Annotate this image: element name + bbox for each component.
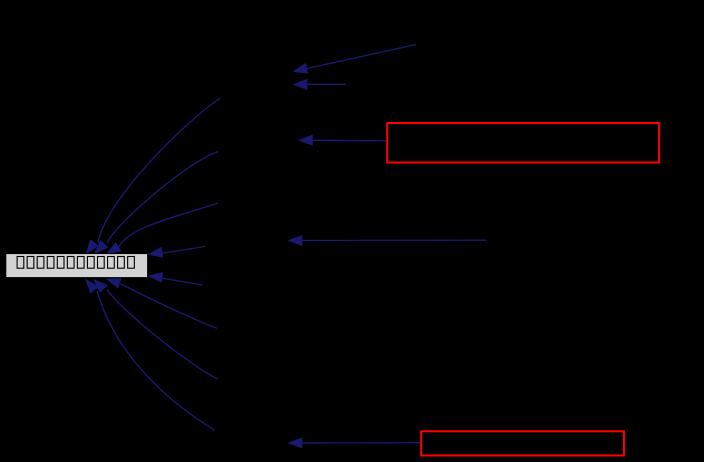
- edge L2 (caller curve bottom-2): [94, 279, 219, 379]
- edge F (from red node 2): [288, 438, 420, 448]
- node: highlighted caller (red box 2): [421, 431, 624, 455]
- edge B (indirect caller short): [293, 79, 346, 89]
- node: highlighted caller (red box 1): [387, 123, 659, 163]
- edge C (from red node 1): [299, 135, 387, 145]
- edge L1 (caller curve bottom-1): [106, 278, 217, 328]
- edge U3 (caller curve top-3): [106, 203, 218, 254]
- edge G1 (caller line right-1): [148, 247, 205, 258]
- edge U1 (caller curve top-1): [86, 98, 220, 254]
- edge D (long indirect caller): [288, 235, 486, 245]
- node: current function (grey box with placeholder glyphs): [6, 254, 148, 278]
- edge A (indirect caller top): [293, 45, 416, 74]
- edge G2 (caller line right-2): [148, 272, 202, 285]
- edge L3 (caller curve bottom-3): [86, 279, 216, 430]
- edge U2 (caller curve top-2): [95, 152, 219, 254]
